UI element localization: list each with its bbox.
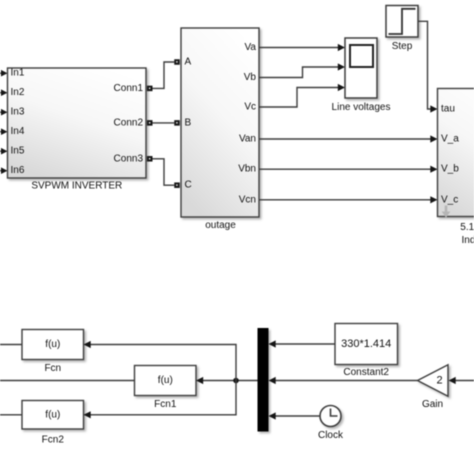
scope Line voltages	[345, 38, 377, 98]
port square B	[174, 120, 180, 126]
svg-text:Fcn: Fcn	[44, 363, 61, 374]
svg-text:5.1 kW: 5.1 kW	[460, 222, 474, 233]
fcn block Fcn	[22, 330, 84, 360]
wire Vb to scope	[259, 63, 345, 77]
svg-text:Step: Step	[392, 41, 413, 52]
svg-text:Conn1: Conn1	[114, 83, 144, 94]
svg-text:f(u): f(u)	[45, 409, 60, 420]
svg-text:In5: In5	[11, 146, 25, 157]
port square Conn2	[147, 120, 153, 126]
wire Conn2 to B	[153, 122, 175, 124]
wire Van to V_a	[259, 135, 438, 142]
label Fcn2	[42, 435, 65, 446]
wire Step to tau	[418, 21, 438, 112]
port square A	[174, 59, 180, 65]
svg-text:In1: In1	[11, 68, 25, 79]
svg-text:C: C	[185, 180, 192, 191]
wire Fcn2 output	[0, 414, 22, 416]
svg-text:V_c: V_c	[441, 194, 458, 205]
wire Vcn to V_c	[259, 196, 438, 203]
svg-text:V_a: V_a	[441, 134, 459, 145]
svg-text:In2: In2	[11, 87, 25, 98]
port square Conn1	[147, 86, 153, 92]
svg-text:330*1.414: 330*1.414	[341, 338, 391, 350]
svg-text:Constant2: Constant2	[343, 367, 389, 378]
junction dot	[233, 378, 239, 384]
svg-text:Gain: Gain	[422, 399, 443, 410]
wire into gain	[449, 377, 474, 384]
wire In6	[0, 167, 8, 174]
svg-text:Vc: Vc	[244, 102, 256, 113]
svg-text:V_b: V_b	[441, 164, 459, 175]
fcn block Fcn1	[135, 366, 197, 396]
wire In3	[0, 109, 8, 116]
wire Constant2 to mux	[269, 340, 336, 347]
svg-text:Line voltages: Line voltages	[332, 102, 391, 113]
step source block	[386, 6, 418, 38]
svg-text:tau: tau	[441, 104, 455, 115]
label Gain	[422, 399, 443, 410]
svg-text:Fcn1: Fcn1	[154, 399, 177, 410]
svg-text:A: A	[185, 57, 192, 68]
subsystem outage	[181, 28, 259, 217]
wire Vc to scope	[259, 84, 345, 107]
label Clock	[318, 430, 344, 441]
subsystem SVPWM INVERTER	[8, 68, 147, 178]
svg-text:Clock: Clock	[318, 430, 344, 441]
wire Conn3 to C	[153, 159, 175, 185]
wire In4	[0, 128, 8, 135]
wire In5	[0, 148, 8, 155]
svg-text:Fcn2: Fcn2	[42, 435, 65, 446]
wire clock to mux	[269, 412, 321, 419]
subsystem induction machine	[438, 89, 474, 217]
svg-text:Vcn: Vcn	[239, 194, 256, 205]
label Step	[392, 41, 413, 52]
wire branch to Fcn2	[84, 381, 237, 419]
wire Conn1 to A	[153, 62, 175, 88]
constant block Constant2	[335, 324, 398, 365]
label Fcn1	[154, 399, 177, 410]
port square C	[174, 182, 180, 188]
svg-text:Vb: Vb	[244, 72, 257, 83]
gain block	[418, 365, 449, 396]
wire Va to scope	[259, 44, 345, 51]
svg-text:f(u): f(u)	[158, 375, 173, 386]
label Line voltages	[332, 102, 391, 113]
svg-text:Va: Va	[245, 42, 257, 53]
svg-text:In3: In3	[11, 107, 25, 118]
port square Conn3	[147, 156, 153, 162]
wire Fcn1 output	[0, 380, 135, 382]
svg-text:outage: outage	[205, 220, 236, 231]
svg-text:Vbn: Vbn	[238, 164, 256, 175]
mux	[258, 328, 269, 432]
label induction machine line2	[462, 235, 474, 246]
wire branch to Fcn	[84, 341, 237, 381]
svg-text:SVPWM INVERTER: SVPWM INVERTER	[31, 181, 122, 192]
label outage	[205, 220, 236, 231]
svg-text:In6: In6	[11, 165, 25, 176]
svg-text:Conn2: Conn2	[114, 117, 144, 128]
wire In2	[0, 89, 8, 96]
label Fcn	[44, 363, 61, 374]
svg-text:Conn3: Conn3	[114, 153, 144, 164]
wire Vbn to V_b	[259, 166, 438, 173]
wire mux to Fcn1	[196, 377, 258, 384]
label induction machine line1	[460, 222, 474, 233]
wire Fcn output	[0, 344, 22, 346]
svg-text:B: B	[185, 117, 192, 128]
clock block	[320, 406, 341, 427]
wire gain to mux	[269, 377, 418, 384]
label Constant2	[343, 367, 389, 378]
fcn block Fcn2	[22, 401, 84, 430]
label SVPWM INVERTER	[31, 181, 122, 192]
gray arrow on induction machine	[442, 206, 451, 218]
svg-text:f(u): f(u)	[45, 339, 60, 350]
svg-text:2: 2	[436, 375, 442, 387]
svg-text:Van: Van	[239, 134, 256, 145]
wire In1	[0, 70, 8, 77]
svg-text:Induction: Induction	[462, 235, 474, 246]
svg-text:In4: In4	[11, 126, 25, 137]
